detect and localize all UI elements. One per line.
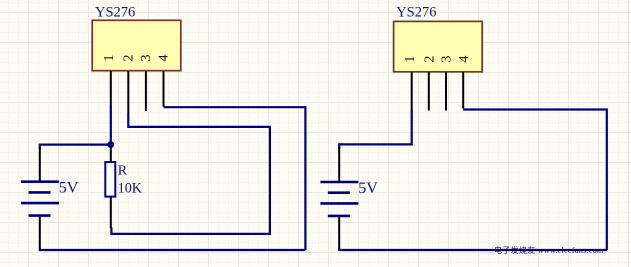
svg-text:YS276: YS276 [95,5,135,21]
svg-text:2: 2 [122,55,137,62]
svg-text:YS276: YS276 [396,4,436,20]
pin 2 (right U2) open stub [428,72,430,111]
wire pin4 loop (right) [463,110,607,251]
svg-text:4: 4 [457,56,472,63]
svg-text:2: 2 [422,56,437,63]
svg-text:3: 3 [139,55,154,62]
resistor R1 body [105,162,115,197]
svg-text:5V: 5V [358,180,378,197]
wire bottom rail (left) [39,249,306,251]
svg-text:5V: 5V [59,180,79,197]
pin 1 (right U2) [411,72,413,111]
component U1 body [92,20,181,70]
wire pin4 outer loop [164,107,306,250]
svg-text:10K: 10K [118,180,143,196]
pin 4 (right U2) [462,72,464,109]
junction node A dot [107,141,114,148]
svg-text:1: 1 [102,55,117,62]
pin 3 (right U2) open stub [445,72,447,111]
pin 2 (left U1) [127,71,129,115]
svg-text:3: 3 [440,56,455,63]
battery B2 plate long 2 [320,202,358,205]
svg-text:4: 4 [157,55,172,62]
wire pin2 inner loop [111,114,270,234]
svg-text:1: 1 [403,56,418,63]
pin 1 (left U1) [110,71,112,107]
battery B1 bottom pin [39,216,41,250]
battery B2 plate short 2 [328,215,350,218]
battery B1 top pin [39,147,41,182]
battery B2 plate short 1 [328,191,350,194]
battery B1 plate long 2 [21,202,59,205]
battery B2 plate long 1 [320,181,358,184]
battery B1 plate long 1 [21,180,59,183]
wire pin1 to battery top (right) [339,110,412,149]
wire bottom rail (right) [338,249,607,251]
wire pin1 to junction [110,106,112,145]
battery B1 plate short 2 [29,214,51,217]
resistor R1 bottom pin [110,197,112,228]
resistor R1 top pin [110,148,112,163]
component U2 body [394,21,483,71]
pin 3 (left U1) open stub [145,71,147,111]
svg-text:电子发烧友 www.elecfans.com: 电子发烧友 www.elecfans.com [494,245,604,255]
battery B2 bottom pin [338,216,340,250]
pin 4 (left U1) [163,71,165,107]
battery B2 top pin [338,147,340,182]
svg-text:R: R [118,164,128,179]
wire junction to battery top [40,145,111,149]
battery B1 plate short 1 [29,191,51,194]
